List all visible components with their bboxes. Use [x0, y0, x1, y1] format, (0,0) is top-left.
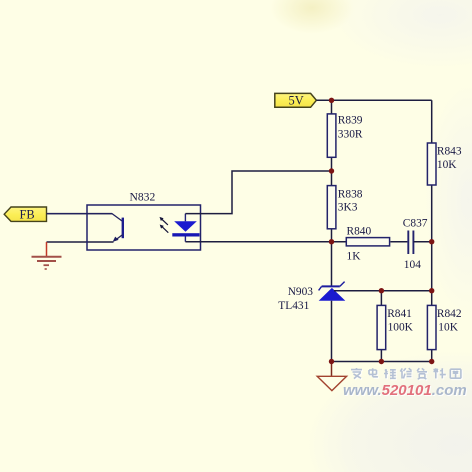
wire TL431 cathode to right rail	[334, 290, 432, 292]
wire emitter to ground	[47, 241, 114, 243]
LED of optocoupler	[172, 214, 199, 242]
resistor R841	[377, 291, 386, 362]
wire R840 to C837	[390, 241, 407, 243]
transistor of optocoupler	[47, 214, 125, 242]
label 1K	[347, 251, 362, 263]
label N832	[130, 191, 156, 204]
svg-text:R842: R842	[437, 308, 462, 320]
junction R841 top	[379, 288, 384, 293]
power ground	[317, 362, 346, 391]
resistor R838	[327, 171, 336, 242]
svg-text:R843: R843	[437, 145, 462, 157]
junction R839/R838	[329, 168, 334, 173]
svg-text:3K3: 3K3	[338, 202, 358, 214]
label 3K3	[338, 202, 358, 214]
resistor R843	[427, 143, 436, 185]
optocoupler N832 box	[87, 205, 201, 250]
label R843	[437, 145, 462, 157]
wire 5V rail top	[316, 99, 431, 101]
label R838	[338, 188, 363, 200]
svg-text:N832: N832	[130, 191, 156, 204]
svg-text:TL431: TL431	[278, 300, 309, 312]
label TL431	[278, 300, 309, 312]
resistor R840	[346, 238, 389, 246]
svg-text:FB: FB	[20, 208, 35, 222]
resistor R842	[427, 305, 436, 349]
wire main mid rail	[185, 241, 346, 243]
label R840	[347, 225, 372, 237]
svg-text:5V: 5V	[289, 94, 304, 108]
junction R841 bottom	[379, 359, 384, 364]
junction R838/mid rail	[329, 239, 334, 244]
label N903	[288, 286, 314, 298]
wire opto collector-out up to R839/R838 junction	[185, 171, 331, 214]
svg-text:R838: R838	[338, 188, 363, 200]
wire bottom rail	[332, 361, 432, 363]
label R841	[387, 308, 412, 320]
svg-text:10K: 10K	[438, 322, 458, 334]
label 10K (R842)	[438, 322, 458, 334]
port 5V	[275, 93, 317, 107]
junction cathode/right rail	[429, 288, 434, 293]
svg-text:R840: R840	[347, 225, 372, 237]
svg-text:10K: 10K	[437, 159, 457, 171]
wire FB to optocoupler	[47, 213, 113, 215]
wire C837 to right rail	[413, 241, 431, 243]
svg-text:100K: 100K	[388, 322, 414, 334]
port FB	[4, 207, 46, 222]
label 104	[404, 259, 421, 271]
junction R842 bottom	[429, 359, 434, 364]
junction C837/right rail	[429, 239, 434, 244]
svg-text:R839: R839	[338, 115, 363, 127]
label C837	[403, 217, 428, 229]
svg-text:1K: 1K	[347, 251, 362, 263]
junction 5V/R839	[329, 98, 334, 103]
svg-text:R841: R841	[387, 308, 412, 320]
watermark url	[343, 382, 468, 400]
resistor R839	[327, 100, 336, 171]
label 330R	[338, 128, 363, 140]
light arrows	[160, 217, 169, 233]
svg-text:330R: 330R	[338, 128, 363, 140]
wire right rail	[431, 100, 433, 361]
svg-text:www.520101.com: www.520101.com	[343, 382, 467, 399]
label 100K	[388, 322, 414, 334]
ground (signal, left)	[32, 242, 62, 269]
watermark chinese text	[352, 369, 462, 380]
svg-text:N903: N903	[288, 286, 314, 298]
svg-text:C837: C837	[403, 217, 428, 229]
capacitor C837	[408, 231, 413, 255]
label R842	[437, 308, 462, 320]
junction anode/bottom rail	[329, 359, 334, 364]
label R839	[338, 115, 363, 127]
shunt regulator N903 TL431	[319, 242, 346, 362]
svg-text:104: 104	[404, 259, 421, 271]
label 10K (R843)	[437, 159, 457, 171]
